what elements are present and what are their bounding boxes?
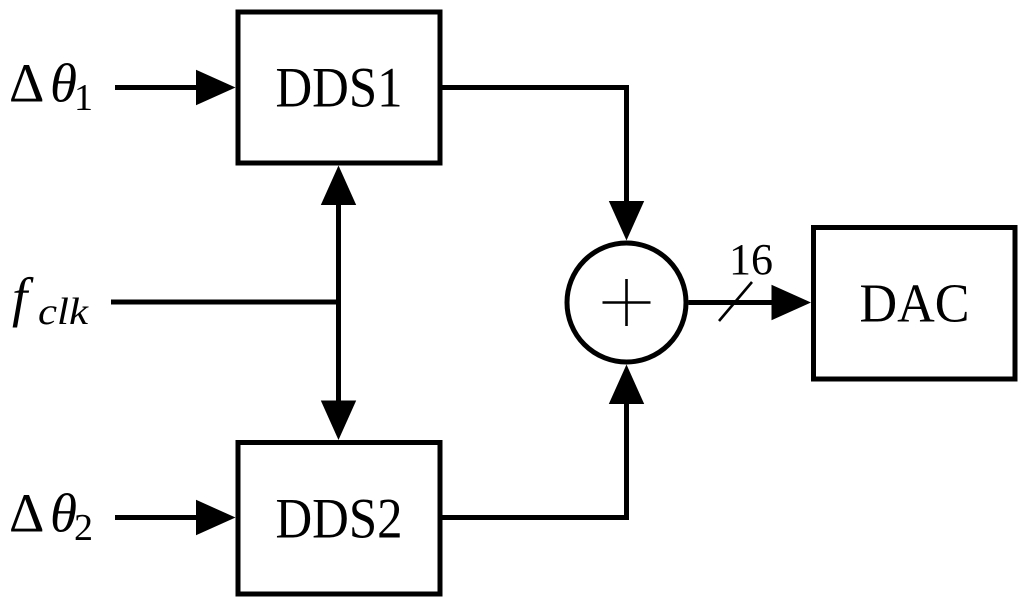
- svg-text:Δ: Δ: [9, 53, 44, 114]
- bus slash mark: [719, 282, 752, 321]
- label Δθ1 (input 1): [9, 53, 93, 120]
- block DDS1: [238, 12, 440, 163]
- label Δθ2 (input 2): [9, 483, 93, 550]
- arrowhead down into DDS2 top: [321, 401, 356, 441]
- svg-text:DAC: DAC: [860, 273, 970, 334]
- wire adder output to DAC: [689, 300, 774, 305]
- wire DDS1 output to adder: [441, 88, 627, 205]
- arrowhead up into DDS1 bottom: [321, 166, 356, 206]
- svg-text:DDS2: DDS2: [276, 488, 403, 551]
- svg-text:1: 1: [74, 77, 93, 119]
- arrowhead into DAC left: [772, 285, 812, 320]
- label fclk (clock input): [12, 267, 89, 333]
- svg-text:clk: clk: [38, 291, 89, 333]
- svg-text:2: 2: [74, 507, 93, 549]
- wire DDS2 output to adder: [441, 401, 627, 518]
- svg-text:θ: θ: [50, 53, 77, 114]
- wire Δθ1 to DDS1: [115, 85, 200, 90]
- arrowhead into DDS2 left: [196, 500, 236, 535]
- svg-text:16: 16: [729, 235, 773, 284]
- wire fclk horizontal: [111, 300, 339, 305]
- arrowhead down into adder top: [609, 201, 644, 241]
- wire clock vertical (double arrow between DDS1 and DDS2): [336, 200, 341, 404]
- adder (summing junction): [567, 243, 686, 362]
- svg-text:DDS1: DDS1: [276, 57, 403, 120]
- arrowhead into DDS1 left: [196, 70, 236, 105]
- arrowhead up into adder bottom: [609, 365, 644, 405]
- svg-text:θ: θ: [50, 483, 77, 544]
- svg-text:Δ: Δ: [9, 483, 44, 544]
- block DDS2: [238, 443, 440, 595]
- block DAC: [814, 228, 1016, 380]
- wire Δθ2 to DDS2: [115, 515, 200, 520]
